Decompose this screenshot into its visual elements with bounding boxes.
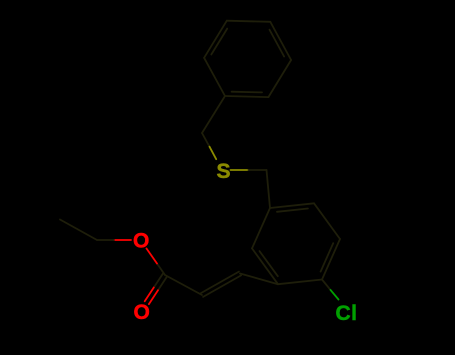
chain C=C double bond line A Cbeta-Calpha [203,275,241,297]
bond carbonyl C to ester O oxygen half [147,249,158,264]
carbonyl C=O double bond line A carbon half [158,276,167,290]
bond CH2' down to right ring vertex T [267,170,271,208]
top phenyl ring double bond inner line R2-R3 [211,29,227,55]
bond CH2 to S carbon half [202,133,210,147]
svg-text:O: O [134,301,150,324]
right ring edge K1-K2 [314,203,340,239]
right ring double bond inner line K2-K3 [321,243,334,271]
bond ethyl CH2 to CH3 [60,220,97,241]
bond ester O to ethyl CH2 oxygen half [114,239,131,241]
right ring double bond inner line K4-K5 [260,251,278,276]
bond carbonyl C to ester O carbon half [157,264,165,276]
right ring double bond inner line T-K1 [277,209,308,212]
top phenyl ring double bond inner line R6-R1 [232,91,262,94]
top phenyl ring edge R3-R4 [227,21,270,22]
top phenyl ring edge R4-R5 [270,22,291,60]
carbonyl C=O double bond line B oxygen half [145,288,154,302]
bond ring K3 to Cl carbon half [322,280,331,290]
top phenyl ring edge R6-R1 [225,96,268,97]
bond ring K3 to Cl chlorine half [331,290,339,300]
bond ring K4 to chain Cbeta [240,274,278,285]
right ring edge K4-K5 [252,248,278,284]
top phenyl ring edge R1-R2 [204,58,225,96]
bond S to CH2' sulfur half [231,169,249,171]
svg-text:S: S [217,160,231,183]
carbonyl C=O double bond line B carbon half [154,274,163,288]
top phenyl ring double bond inner line R4-R5 [270,30,285,57]
right ring edge K3-K4 [278,280,322,285]
svg-text:Cl: Cl [336,302,358,325]
right ring edge K2-K3 [322,239,340,280]
bond ring R1 to benzylic CH2 [202,96,225,133]
right ring edge T-K1 [270,203,314,208]
bond S to CH2' carbon half [249,169,267,171]
top phenyl ring edge R2-R3 [204,21,227,58]
bond CH2 to S sulfur half [210,147,217,160]
svg-text:O: O [133,230,149,253]
right ring edge K5-T [252,208,270,248]
bond ester O to ethyl CH2 carbon half [97,239,114,241]
chain C=C double bond line B Cbeta-Calpha [201,272,239,294]
bond Calpha to carbonyl C [165,275,202,295]
carbonyl C=O double bond line A oxygen half [149,290,158,304]
top phenyl ring edge R5-R6 [268,60,291,97]
